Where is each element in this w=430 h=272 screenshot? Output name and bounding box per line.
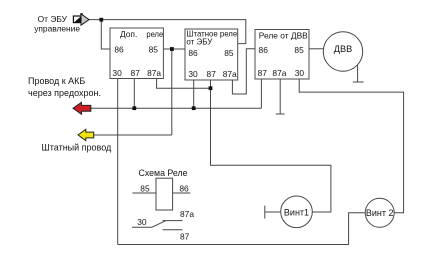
relay K3 body (Реле от ДВВ) xyxy=(255,30,309,80)
svg-text:87: 87 xyxy=(180,232,190,242)
wire: K3 pin 87a stub terminal xyxy=(279,79,281,114)
svg-text:Винт 2: Винт 2 xyxy=(366,208,394,218)
relay schematic pin 87 contact xyxy=(163,229,183,231)
K2 title: Штатное реле от ЭБУ xyxy=(186,29,237,47)
svg-text:87а: 87а xyxy=(147,68,161,78)
relay schematic pin 87a contact xyxy=(163,220,183,222)
svg-text:управление: управление xyxy=(34,24,80,34)
svg-text:86: 86 xyxy=(114,45,124,55)
relay schematic switch arm xyxy=(152,221,166,228)
svg-text:87а: 87а xyxy=(180,209,194,219)
wire: K2 pin 87a to K3 pin 86 xyxy=(232,49,255,94)
wire: K2 pin 30 down to AKB line xyxy=(193,80,195,108)
relay K2 body (Штатное реле от ЭБУ) xyxy=(185,29,238,80)
wire: DVV motor ground lead xyxy=(357,65,359,82)
svg-text:Винт1: Винт1 xyxy=(284,207,309,217)
wire: Vint1 left lead xyxy=(265,211,281,213)
relay schematic pin 85 lead xyxy=(132,192,156,194)
wire: K3 pin 30 right and down to Vint2 motor xyxy=(299,79,403,213)
svg-text:Доп.: Доп. xyxy=(120,29,137,39)
yellow arrow: standard wire xyxy=(78,129,94,140)
svg-text:85: 85 xyxy=(294,45,304,55)
svg-text:30: 30 xyxy=(295,68,305,78)
svg-text:Реле от ДВВ: Реле от ДВВ xyxy=(259,31,308,41)
junction: node 85/86 between K1 and K2 xyxy=(170,47,174,51)
svg-text:реле: реле xyxy=(146,29,163,39)
svg-text:85: 85 xyxy=(140,184,150,194)
relay schematic coil body xyxy=(156,178,173,210)
svg-text:от ЭБУ: от ЭБУ xyxy=(186,37,213,47)
svg-text:30: 30 xyxy=(112,68,122,78)
svg-text:86: 86 xyxy=(259,45,269,55)
ECU control connector arrow icon xyxy=(73,13,89,25)
svg-text:30: 30 xyxy=(137,217,147,227)
motor M1: DVV circle xyxy=(323,32,362,71)
svg-text:86: 86 xyxy=(188,48,198,58)
svg-text:86: 86 xyxy=(179,184,189,194)
terminal bar at Vint1 motor left xyxy=(264,206,266,219)
svg-text:Провод к АКБ: Провод к АКБ xyxy=(28,76,85,86)
relay schematic pin 86 lead xyxy=(173,192,191,194)
wire: top control line from ECU arrow to relay K2 pin 85 xyxy=(89,20,246,44)
red arrow: to AKB via fuse xyxy=(73,102,91,114)
svg-text:87а: 87а xyxy=(223,69,237,79)
wire: K1 pin 85 to K2 pin 86 xyxy=(163,48,185,50)
junction: K1-87a joins K2-87 xyxy=(209,86,213,90)
wire: bottom bus to Vint2 motor left xyxy=(118,213,365,245)
svg-text:через предохрон.: через предохрон. xyxy=(28,88,101,98)
wire: K1 pin 30 down to bottom bus xyxy=(117,79,119,245)
junction: K1-87 on AKB line xyxy=(132,106,136,110)
svg-text:85: 85 xyxy=(149,45,159,55)
label: От ЭБУ управление xyxy=(34,14,80,34)
svg-text:30: 30 xyxy=(188,69,198,79)
svg-text:Схема Реле: Схема Реле xyxy=(139,168,188,178)
motor M3: Vint2 circle xyxy=(365,198,394,227)
wire: K3 pin 87 down to AKB line xyxy=(260,79,262,108)
wire: K3 pin 85 to DVV motor xyxy=(309,48,323,50)
svg-text:87а: 87а xyxy=(272,68,286,78)
svg-text:От ЭБУ: От ЭБУ xyxy=(38,14,68,24)
terminal bar of K3 pin 87a xyxy=(276,113,285,115)
wire: K1 pin 87 down to AKB line xyxy=(133,79,135,109)
wire: red AKB supply line xyxy=(91,107,262,109)
wire: riser from node 85/86 down to standard wire xyxy=(171,49,173,135)
wire: yellow standard wire horizontal xyxy=(94,134,172,136)
wire: K1 pin 87a over to K2 pin 87 xyxy=(157,79,211,89)
svg-text:85: 85 xyxy=(224,48,234,58)
relay K1 body (Доп. реле) xyxy=(110,28,163,79)
label: Провод к АКБ через предохрон. xyxy=(28,76,101,98)
svg-text:87: 87 xyxy=(258,68,268,78)
svg-text:Штатный провод: Штатный провод xyxy=(42,143,113,153)
ground bar of DVV motor xyxy=(353,81,364,83)
svg-text:87: 87 xyxy=(207,69,217,79)
wire: control branch down to relay K1 pin 86 xyxy=(101,20,110,49)
relay schematic pin 30 lead xyxy=(132,226,152,228)
junction: K2-30 on AKB line xyxy=(192,106,196,110)
wire: K2 pin 87 down and right to Vint1 motor xyxy=(211,80,331,212)
svg-text:87: 87 xyxy=(131,68,141,78)
motor M2: Vint1 circle xyxy=(281,196,313,228)
svg-text:ДВВ: ДВВ xyxy=(334,44,352,54)
K1 title: Доп. реле xyxy=(120,29,163,39)
junction: control node on top wire xyxy=(99,18,103,22)
